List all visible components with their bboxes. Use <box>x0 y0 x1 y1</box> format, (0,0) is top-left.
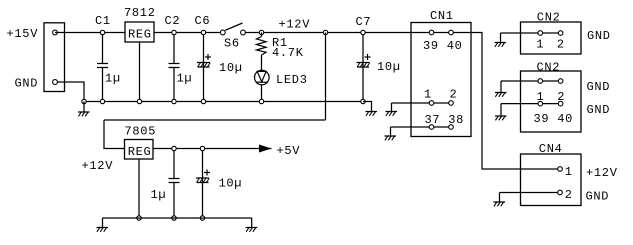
label 1 <box>537 90 545 104</box>
junction LED3 bottom <box>259 99 263 103</box>
junction C1 bottom <box>100 99 104 103</box>
svg-text:1: 1 <box>424 87 432 101</box>
svg-text:2: 2 <box>450 87 458 101</box>
capacitor C lower 10u electrolytic <box>196 149 210 219</box>
switch S6 right contact <box>241 30 246 35</box>
label 39 40 <box>423 39 463 53</box>
CN2 mid pin 1 <box>538 79 543 84</box>
svg-text:7805: 7805 <box>125 124 157 138</box>
label 2 <box>557 90 565 104</box>
junction C6 top <box>201 30 205 34</box>
capacitor C1 <box>97 33 108 102</box>
junction 7805 gnd <box>137 216 141 220</box>
svg-text:GND: GND <box>586 190 610 204</box>
svg-text:C1: C1 <box>95 14 111 28</box>
svg-text:+12V: +12V <box>82 159 114 173</box>
capacitor C7 electrolytic <box>357 33 371 102</box>
ground <box>246 228 258 232</box>
connector CN2 middle <box>521 71 582 132</box>
connector CN4 <box>521 154 582 206</box>
label +12V rail <box>279 18 311 32</box>
label R1 value 4.7k <box>272 46 304 60</box>
CN2 top pin 1 <box>538 31 543 36</box>
svg-text:C2: C2 <box>165 14 181 28</box>
label C1 value 1u <box>105 72 121 86</box>
svg-text:GND: GND <box>587 103 611 117</box>
label GND <box>587 29 611 43</box>
junction C6 bottom <box>201 99 205 103</box>
label 1 <box>536 38 544 52</box>
junction lower 10u top <box>200 146 204 150</box>
ground <box>495 116 507 120</box>
CN2 mid row1 stem <box>500 81 502 93</box>
junction R1 branch <box>259 30 263 34</box>
label +12V 7805 input <box>82 159 114 173</box>
svg-text:39 40: 39 40 <box>423 39 463 53</box>
lower ground stem left <box>102 218 104 228</box>
resistor R1 <box>257 37 267 56</box>
label CN2 middle <box>537 60 561 74</box>
svg-text:CN2: CN2 <box>537 60 561 74</box>
svg-text:37 38: 37 38 <box>425 113 465 127</box>
svg-text:10µ: 10µ <box>219 177 243 191</box>
wire R1 to LED3 <box>261 55 263 70</box>
wire rail to R1 <box>261 33 263 37</box>
label GND <box>15 77 39 91</box>
label 7805 <box>125 124 157 138</box>
CN2 mid pin 2 <box>558 79 563 84</box>
svg-text:4.7K: 4.7K <box>272 46 304 60</box>
svg-text:39 40: 39 40 <box>534 112 574 126</box>
CN4 pin 2 <box>558 190 563 195</box>
label 39 40 <box>534 112 574 126</box>
svg-text:GND: GND <box>587 80 611 94</box>
label 1 <box>565 165 573 179</box>
wire CN1 pins 1-2 ground <box>392 102 452 104</box>
switch S6 left contact <box>220 30 225 35</box>
wire CN2 top ground <box>501 32 561 34</box>
junction lower 10u bottom <box>200 216 204 220</box>
svg-text:1: 1 <box>536 38 544 52</box>
label S6 <box>224 37 240 51</box>
connector CN1 <box>411 23 471 137</box>
svg-text:1µ: 1µ <box>177 72 193 86</box>
CN1 pin 2 <box>449 101 454 106</box>
wire 7805 feed top <box>104 119 326 121</box>
wire 7805 input <box>104 120 125 149</box>
label LED3 <box>276 73 308 87</box>
CN2 mid pin 39 <box>538 101 543 106</box>
wire rail through CN1 <box>411 32 471 34</box>
wire +12V down to 7805 <box>325 33 327 121</box>
ground <box>97 228 109 232</box>
ground <box>386 112 398 116</box>
svg-text:CN1: CN1 <box>430 9 454 23</box>
label GND <box>586 190 610 204</box>
wire CN1 pins 37-38 ground <box>391 126 452 128</box>
junction C7 bottom <box>361 99 365 103</box>
svg-text:1µ: 1µ <box>151 188 167 202</box>
connector pin GND <box>53 80 58 85</box>
CN1 pin 40 <box>449 30 454 35</box>
svg-text:1µ: 1µ <box>105 72 121 86</box>
svg-text:1: 1 <box>565 165 573 179</box>
junction lower 1u top <box>172 146 176 150</box>
junction C7 top <box>361 30 365 34</box>
svg-text:C7: C7 <box>356 15 372 29</box>
svg-text:REG: REG <box>128 145 152 159</box>
label CN2 top <box>537 11 561 25</box>
wire CN4 pin2 ground <box>500 192 558 194</box>
label 2 <box>565 188 573 202</box>
ground <box>366 112 378 116</box>
input connector J1 <box>44 23 65 92</box>
ground <box>495 93 507 97</box>
label +12V CN4 <box>586 166 618 180</box>
label 2 <box>557 38 565 52</box>
CN1 ground stem pins 37-38 <box>390 127 392 136</box>
wire GND pin down to ground rail <box>57 82 84 102</box>
wire +15V rail to regulator <box>55 32 125 34</box>
wire CN2 mid row2 ground <box>501 103 561 105</box>
wire 7805 ground pin <box>138 159 140 218</box>
capacitor C6 electrolytic <box>197 33 211 102</box>
label CN1 <box>430 9 454 23</box>
junction +12V drop <box>323 30 327 34</box>
wire 7812 ground pin <box>139 42 141 102</box>
label C2 <box>165 14 181 28</box>
label 1u lower <box>151 188 167 202</box>
svg-text:C6: C6 <box>195 14 211 28</box>
label GND <box>587 80 611 94</box>
regulator U1 7812 <box>125 22 154 42</box>
ground <box>494 202 506 206</box>
svg-text:10µ: 10µ <box>377 60 401 74</box>
CN1 ground stem pins 1-2 <box>391 103 393 112</box>
junction 7812 gnd <box>137 99 141 103</box>
junction C2 top <box>172 30 176 34</box>
CN1 pin 1 <box>429 101 434 106</box>
junction ground stem <box>83 102 85 113</box>
junction GND rail start <box>82 99 86 103</box>
regulator U2 7805 <box>125 140 154 160</box>
CN2 top ground stem <box>500 33 502 43</box>
CN1 pin 39 <box>429 30 434 35</box>
upper ground rail <box>84 101 363 103</box>
CN2 mid pin 40 <box>558 101 563 106</box>
CN2 mid row2 stem <box>500 104 502 116</box>
svg-text:+15V: +15V <box>7 27 39 41</box>
CN1 pin 37 <box>429 125 434 130</box>
wire CN2 mid row1 ground <box>501 80 561 82</box>
wire ground rail end jog <box>363 102 372 112</box>
svg-text:GND: GND <box>587 29 611 43</box>
wire CN1 to CN4 pin1 <box>471 33 558 170</box>
svg-text:GND: GND <box>15 77 39 91</box>
lower ground rail <box>103 217 252 219</box>
svg-text:S6: S6 <box>224 37 240 51</box>
label 10u lower <box>219 177 243 191</box>
LED LED3 <box>254 70 269 85</box>
label C1 <box>95 14 111 28</box>
ground <box>78 112 90 116</box>
label C2 value 1u <box>177 72 193 86</box>
label 1 <box>424 87 432 101</box>
junction C1 top <box>100 30 104 34</box>
label R1 <box>272 36 288 50</box>
label 2 <box>450 87 458 101</box>
capacitor C2 <box>169 33 180 102</box>
junction C2 bottom <box>172 99 176 103</box>
svg-text:10µ: 10µ <box>219 61 243 75</box>
label GND <box>587 103 611 117</box>
label 37 38 <box>425 113 465 127</box>
label C6 value 10u <box>219 61 243 75</box>
wire LED3 to ground rail <box>261 85 263 102</box>
svg-text:+5V: +5V <box>277 144 301 158</box>
CN4 pin 1 <box>558 167 563 172</box>
label +15V <box>7 27 39 41</box>
wire switch to CN1 <box>245 32 411 34</box>
label 7812 <box>124 6 156 20</box>
capacitor C lower 1u <box>169 149 180 219</box>
wire 7805 output <box>153 148 260 150</box>
label +5V <box>277 144 301 158</box>
svg-text:+12V: +12V <box>279 18 311 32</box>
junction lower 1u bottom <box>172 216 176 220</box>
svg-text:7812: 7812 <box>124 6 156 20</box>
connector pin +15V <box>53 30 58 35</box>
svg-text:LED3: LED3 <box>276 73 308 87</box>
svg-text:REG: REG <box>128 27 152 41</box>
svg-text:2: 2 <box>565 188 573 202</box>
svg-text:2: 2 <box>557 38 565 52</box>
connector CN2 top <box>521 22 582 54</box>
CN1 pin 38 <box>449 125 454 130</box>
label C7 value 10u <box>377 60 401 74</box>
svg-text:+12V: +12V <box>586 166 618 180</box>
ground <box>385 136 397 140</box>
CN4 ground stem <box>499 193 501 203</box>
arrow +5V output <box>260 145 272 152</box>
ground <box>495 43 507 47</box>
lower ground stem right <box>251 218 253 228</box>
wire regulator output rail <box>154 32 220 34</box>
label C6 <box>195 14 211 28</box>
label CN4 <box>539 142 563 156</box>
label C7 <box>356 15 372 29</box>
switch S6 lever <box>225 23 242 30</box>
CN2 top pin 2 <box>558 31 563 36</box>
